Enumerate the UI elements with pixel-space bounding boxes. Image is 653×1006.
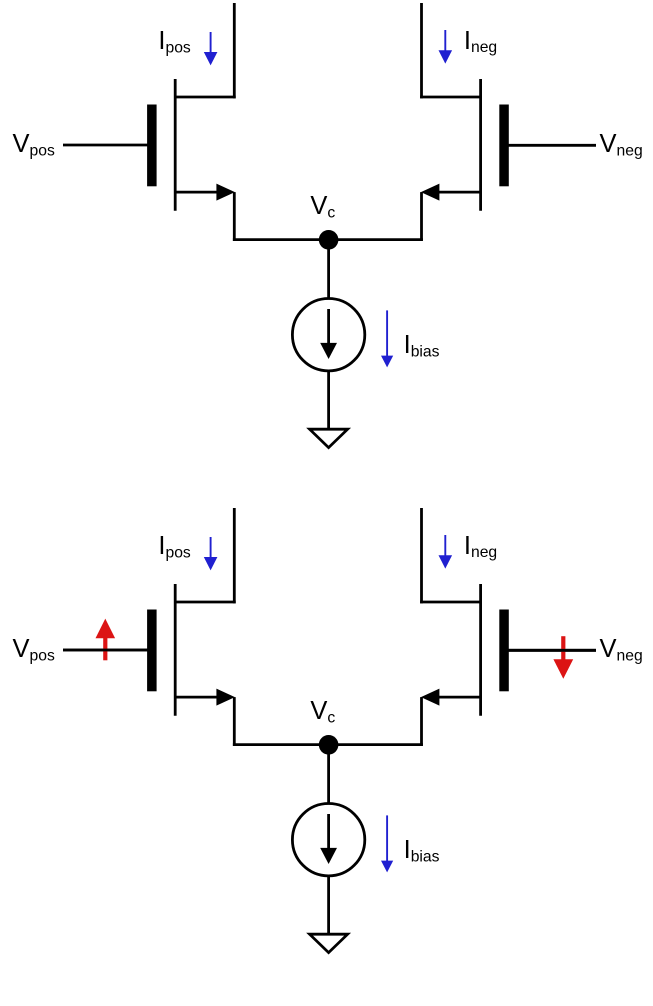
wire: M2 source down (top) [420,192,423,241]
ground (bottom) [310,934,348,952]
wire: M1 source to node (bottom) [233,743,329,746]
wire: M1 source to node (top) [233,238,329,241]
red arrow: V_pos increase [96,619,116,661]
svg-text:Vpos: Vpos [13,635,55,664]
wire: M2 drain vertical (bottom) [420,508,423,603]
wire: M2 source down (bottom) [420,697,423,746]
svg-text:Ineg: Ineg [464,27,497,56]
wire: current source to ground (bottom) [327,876,330,935]
wire: M2 drain vertical (top) [420,3,423,98]
svg-text:Vneg: Vneg [600,130,643,159]
wire: M1 drain vertical (bottom) [233,508,236,603]
svg-text:Vc: Vc [310,192,335,221]
transistor M1 left NMOS (top) [147,79,236,211]
wire: node to M2 source (bottom) [329,743,423,746]
transistor M2 right NMOS (bottom) [420,584,509,716]
wire: V_pos lead overlap [63,649,149,652]
svg-text:Vpos: Vpos [13,130,55,159]
current arrow I_pos blue (bottom) [204,537,218,570]
node V_c junction (top) [319,230,339,250]
red arrow: V_neg decrease [553,636,573,679]
wire: current source to ground (top) [327,371,330,430]
wire: node to M2 source (top) [329,238,423,241]
current arrow I_bias blue (bottom) [381,815,393,872]
svg-text:Vc: Vc [310,697,335,726]
wire: node to current source (bottom) [327,745,330,805]
wire: V_neg lead overlap [508,649,596,652]
node V_c junction (bottom) [319,735,339,755]
current source I1 (top) [292,299,364,371]
svg-text:Ibias: Ibias [404,836,440,865]
wire: M1 source down (bottom) [233,697,236,746]
svg-text:Ineg: Ineg [464,532,497,561]
current arrow I_neg blue (bottom) [439,535,453,569]
current arrow I_neg blue (top) [439,30,453,64]
wire: M1 drain vertical (top) [233,3,236,98]
wire: V_neg lead (bottom) [508,649,596,652]
transistor M2 right NMOS (top) [420,79,509,211]
wire: V_pos lead (bottom) [63,649,149,652]
svg-text:Ipos: Ipos [158,532,191,561]
wire: node to current source (top) [327,240,330,300]
current arrow I_pos blue (top) [204,32,218,65]
current source I1 (bottom) [292,804,364,876]
svg-text:Ipos: Ipos [158,27,191,56]
ground (top) [310,429,348,447]
svg-text:Vneg: Vneg [600,635,643,664]
wire: V_neg lead (top) [508,144,596,147]
wire: M1 source down (top) [233,192,236,241]
svg-text:Ibias: Ibias [404,331,440,360]
wire: V_pos lead (top) [63,144,149,147]
transistor M1 left NMOS (bottom) [147,584,236,716]
current arrow I_bias blue (top) [381,310,393,367]
